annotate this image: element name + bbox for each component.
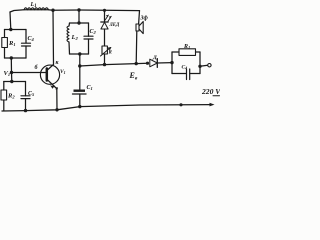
node middle-branch-top junction <box>77 8 80 11</box>
wire RC block output <box>200 65 208 66</box>
svg-text:C1: C1 <box>87 85 93 91</box>
svg-text:R2: R2 <box>7 93 15 100</box>
transistor base bar <box>46 69 49 81</box>
wire R3 to EB rail <box>104 54 106 65</box>
wire middle branch drop <box>78 10 80 23</box>
svg-text:C2: C2 <box>90 29 97 35</box>
wire RC1 bottom rail <box>5 57 27 59</box>
wire left drop to RC1 <box>9 12 12 30</box>
svg-text:ЛЕД: ЛЕД <box>109 23 120 28</box>
wire RC block right vertical <box>199 52 201 74</box>
wire RC block bottom-left <box>172 73 186 75</box>
node output junction <box>198 65 201 68</box>
wire RC1 left vertical lower <box>4 48 6 59</box>
node LC bottom junction <box>78 52 81 55</box>
capacitor C4 (upper-left) <box>22 43 31 46</box>
node RC block input junction <box>170 61 173 64</box>
inductor L1 <box>24 8 49 10</box>
node diode anode <box>146 62 149 65</box>
wire LC left vertical lower <box>68 42 71 54</box>
node LC loop top junction <box>77 21 80 24</box>
wire emitter down <box>54 86 57 110</box>
wire RC2 right vertical lower <box>25 99 27 111</box>
wire RC1 left vertical upper <box>4 30 6 38</box>
inductor L2 <box>67 26 69 42</box>
wire LC bottom rail <box>70 53 89 55</box>
wire RC2 left vertical lower <box>3 100 5 111</box>
svg-text:3ф: 3ф <box>140 15 149 22</box>
svg-text:L1: L1 <box>30 2 37 9</box>
wire RC1 right vertical lower <box>25 46 27 58</box>
wire RC block top-right <box>196 51 201 53</box>
node EB rail left junction <box>78 64 81 67</box>
wire drop to base tap <box>10 58 12 73</box>
terminal circle <box>208 63 211 66</box>
wire LC loop top rail <box>70 22 89 24</box>
svg-text:Д: Д <box>152 55 157 61</box>
wire RC2 top rail <box>4 81 26 83</box>
wire LC to EB rail <box>79 54 81 66</box>
svg-text:к: к <box>56 60 60 66</box>
svg-text:L2: L2 <box>71 34 79 41</box>
svg-text:C4: C4 <box>182 64 188 70</box>
node RC1 top junction <box>9 28 12 31</box>
node LED-branch-top junction <box>103 9 106 12</box>
capacitor C5 (lower-left) <box>21 96 30 99</box>
capacitor C4 (output block) <box>187 69 190 80</box>
node R3-EB junction <box>103 63 106 66</box>
diode D <box>150 59 158 68</box>
svg-text:220 V: 220 V <box>201 87 220 96</box>
svg-text:C5: C5 <box>28 91 35 97</box>
LED arrows <box>105 15 111 21</box>
wire RC1 right vertical upper <box>25 30 27 44</box>
node RC1 bottom junction <box>10 56 13 59</box>
node RC2 top junction <box>10 80 13 83</box>
wire LC left vertical upper <box>68 23 71 26</box>
svg-text:V1: V1 <box>60 69 66 75</box>
svg-text:R1: R1 <box>183 44 190 50</box>
wire RC2 right vertical upper <box>25 82 27 96</box>
loudspeaker <box>136 22 143 34</box>
wire RC1 top rail <box>5 29 27 31</box>
capacitor C2 <box>84 36 93 39</box>
LED D1 <box>101 22 108 29</box>
wire base <box>12 72 46 74</box>
wire drop to RC2 <box>11 73 13 82</box>
svg-text:R1: R1 <box>8 40 16 47</box>
node speaker-EB junction <box>135 62 138 65</box>
svg-text:V1: V1 <box>4 70 11 77</box>
wire diode to RC block <box>157 62 172 64</box>
resistor R5 (output block) <box>179 49 196 56</box>
node collector-top junction <box>51 9 54 12</box>
wire down to C1 <box>79 66 81 90</box>
transistor emitter stroke with arrow <box>47 79 54 86</box>
wire RC block left vertical <box>171 52 173 74</box>
wire EB rail <box>80 63 148 66</box>
wire LED branch upper <box>104 10 106 22</box>
wire LED to R3 <box>104 29 106 46</box>
node bus blob <box>179 103 182 106</box>
svg-text:э: э <box>55 86 59 92</box>
svg-text:R: R <box>109 51 113 56</box>
node C1-bus junction <box>78 105 81 108</box>
node base tap junction <box>10 71 13 74</box>
transistor collector stroke <box>47 65 54 71</box>
variable resistor R3 <box>102 46 107 54</box>
svg-text:б: б <box>35 64 39 71</box>
transistor VT1 circle <box>40 65 59 84</box>
wire RC block top-left <box>172 51 179 53</box>
wire speaker to EB rail <box>135 31 138 64</box>
wire LC right vertical upper <box>88 23 90 36</box>
transistor emitter arrowhead <box>50 85 54 88</box>
wire C1 to bus <box>79 94 81 107</box>
wire RC block bottom-right <box>190 73 200 75</box>
R3 arrow <box>101 48 111 57</box>
wire RC2 left vertical upper <box>3 82 5 91</box>
capacitor C1 (electrolytic) <box>73 90 87 95</box>
resistor R2 <box>1 90 7 100</box>
resistor R1 <box>2 38 8 48</box>
node emitter-bus junction <box>55 108 58 111</box>
wire top rail <box>10 10 140 12</box>
svg-text:Eв: Eв <box>129 71 138 82</box>
wire bottom bus <box>2 105 211 111</box>
node RC2 bottom junction <box>24 109 27 112</box>
svg-text:C4: C4 <box>28 36 35 42</box>
wire LC right vertical lower <box>88 39 90 54</box>
wire collector up <box>52 10 55 64</box>
bus end arrow <box>210 103 215 107</box>
wire speaker drop <box>138 11 141 24</box>
